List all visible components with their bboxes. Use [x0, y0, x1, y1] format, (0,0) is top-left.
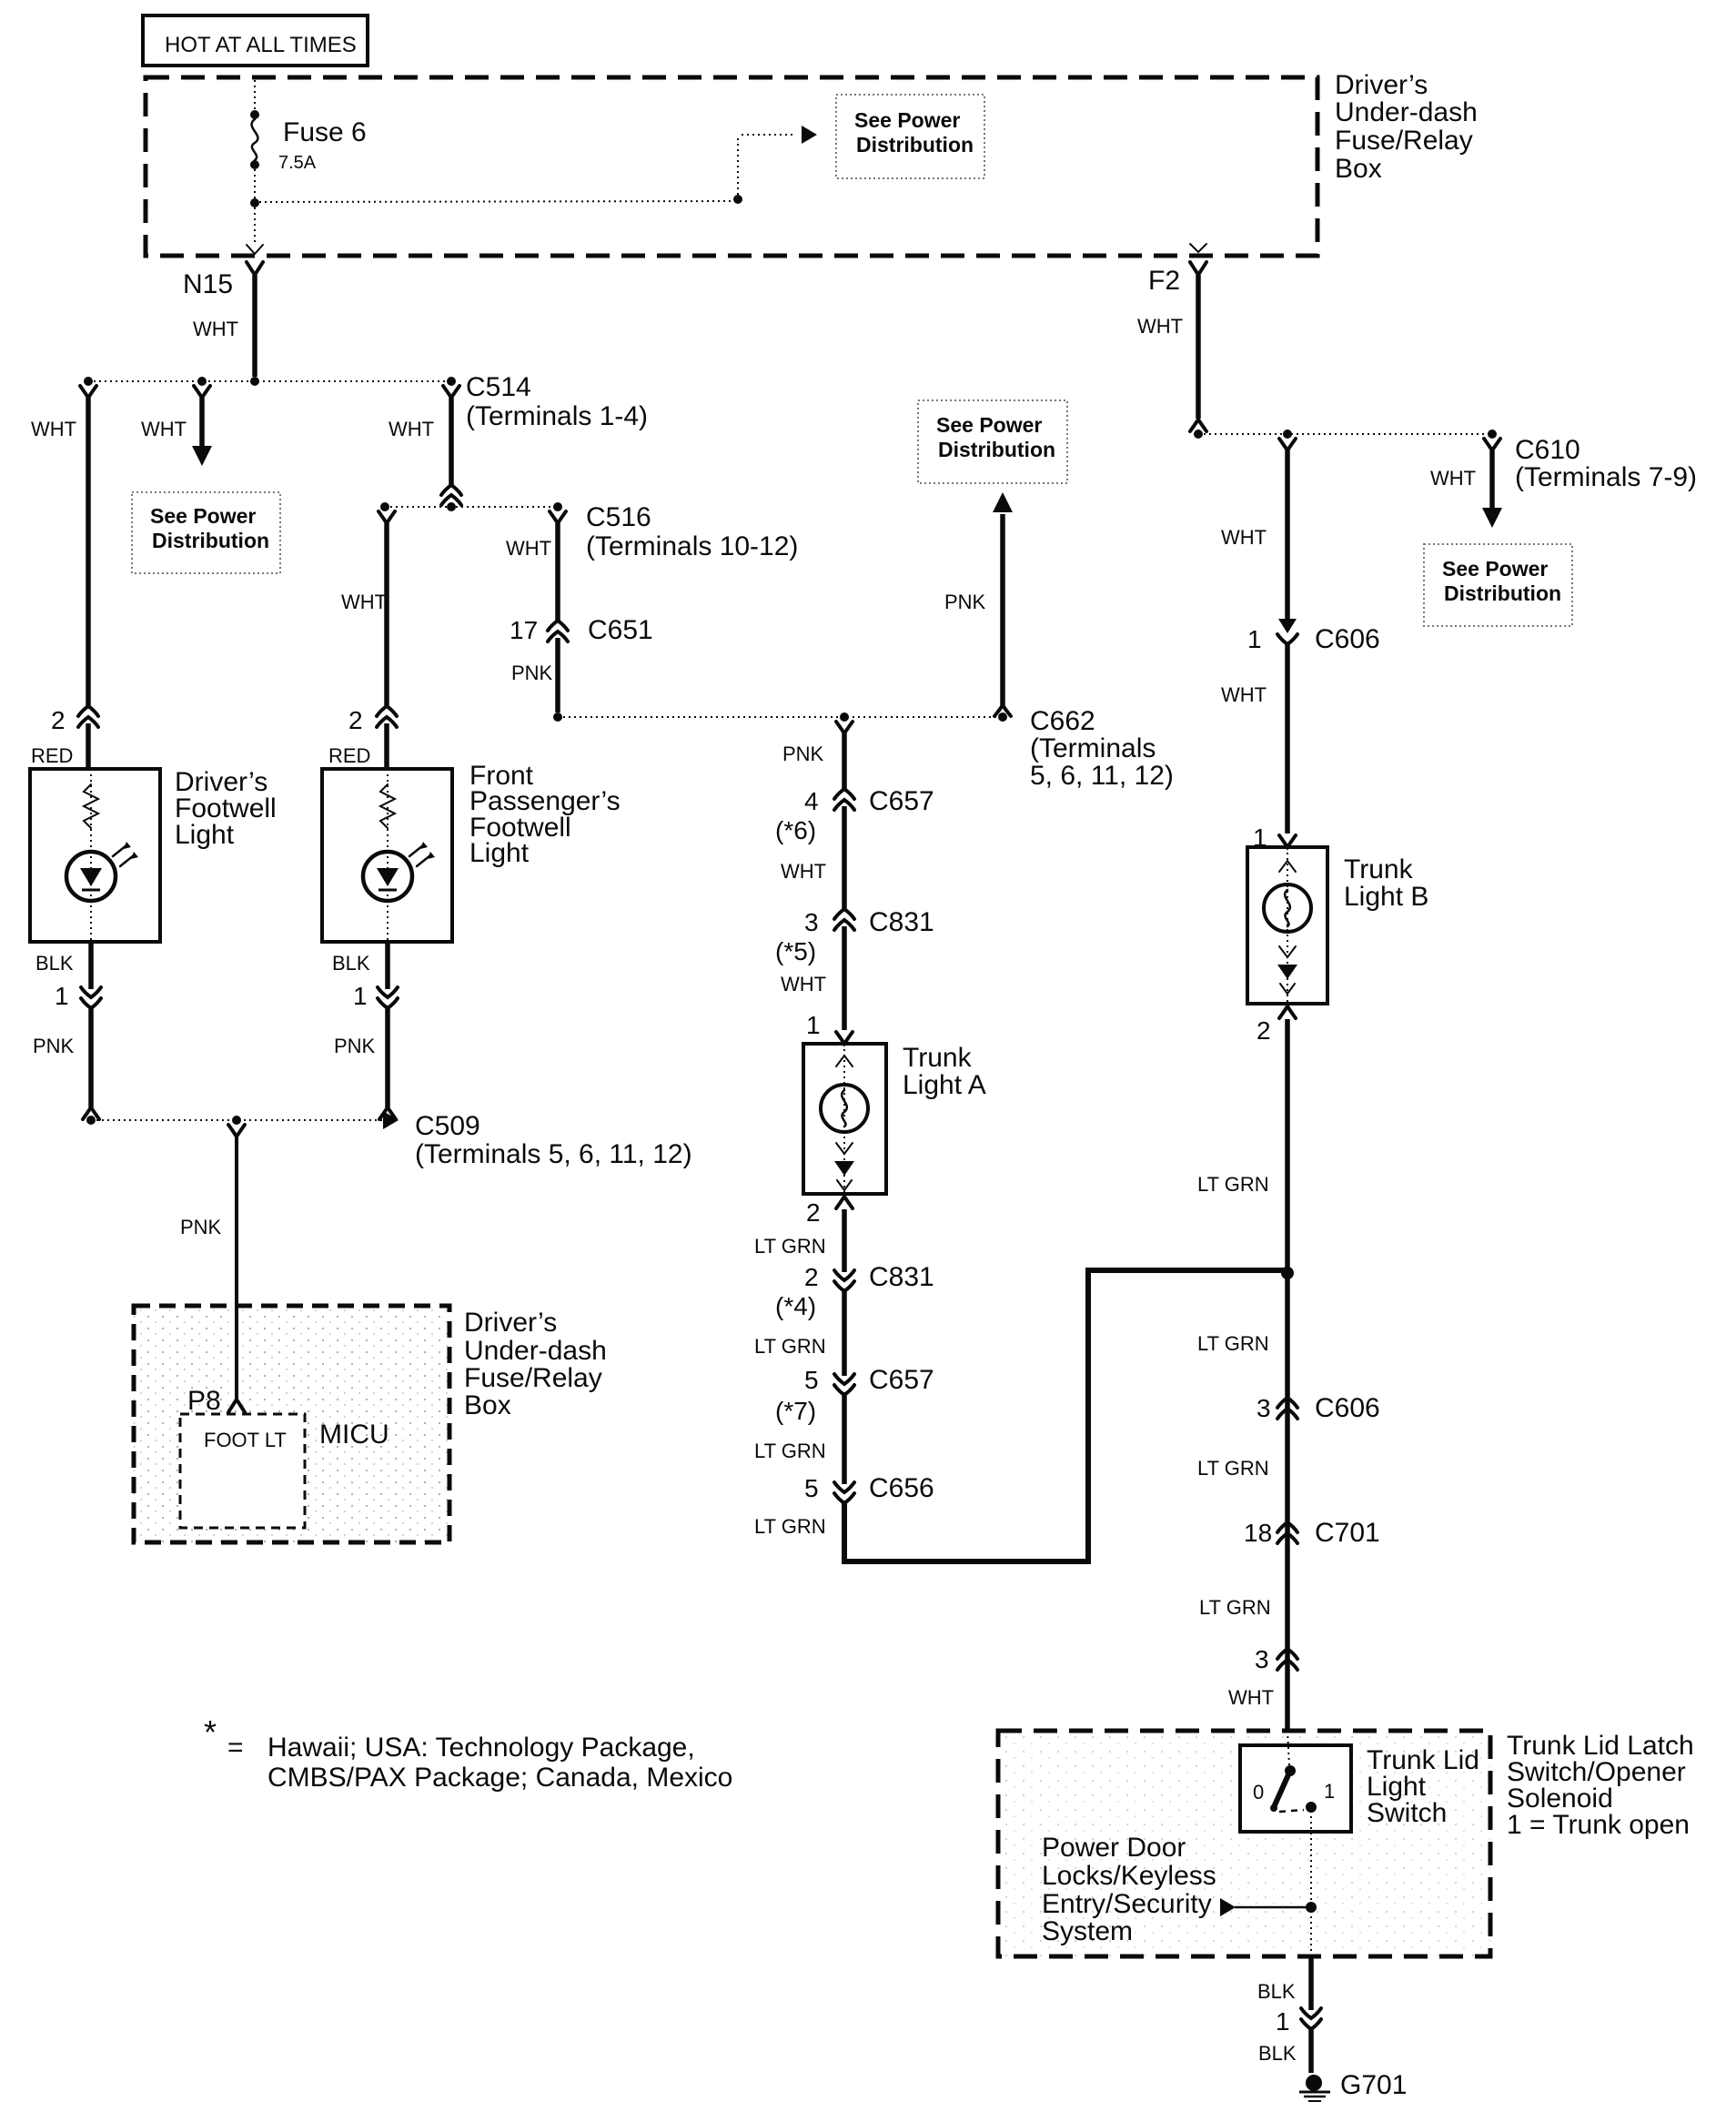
svg-text:C606: C606 [1315, 1393, 1380, 1423]
svg-text:1 = Trunk open: 1 = Trunk open [1507, 1810, 1690, 1840]
svg-text:LT GRN: LT GRN [1197, 1332, 1269, 1355]
svg-text:PNK: PNK [944, 591, 986, 613]
svg-text:C657: C657 [869, 1365, 934, 1395]
svg-text:BLK: BLK [1257, 1980, 1296, 2003]
svg-text:Distribution: Distribution [938, 438, 1055, 461]
svg-text:3: 3 [1257, 1394, 1271, 1422]
svg-text:1: 1 [353, 982, 368, 1010]
svg-text:Trunk: Trunk [903, 1043, 973, 1073]
svg-text:C831: C831 [869, 1262, 934, 1292]
svg-text:(Terminals 10-12): (Terminals 10-12) [586, 531, 798, 561]
svg-text:RED: RED [328, 744, 370, 767]
svg-text:PNK: PNK [180, 1216, 222, 1238]
svg-text:(Terminals 5, 6, 11, 12): (Terminals 5, 6, 11, 12) [415, 1139, 692, 1169]
svg-text:3: 3 [804, 908, 819, 936]
svg-text:2: 2 [1257, 1016, 1271, 1045]
svg-text:WHT: WHT [1430, 467, 1476, 490]
svg-text:(Terminals 7-9): (Terminals 7-9) [1515, 462, 1697, 492]
svg-text:WHT: WHT [1137, 315, 1183, 338]
svg-text:5, 6, 11, 12): 5, 6, 11, 12) [1030, 761, 1174, 791]
svg-text:C657: C657 [869, 786, 934, 816]
svg-text:Power Door: Power Door [1042, 1833, 1186, 1863]
svg-text:Under-dash: Under-dash [464, 1336, 607, 1366]
svg-text:3: 3 [1255, 1645, 1269, 1673]
svg-text:WHT: WHT [1221, 526, 1267, 549]
svg-text:2: 2 [804, 1263, 819, 1291]
svg-text:1: 1 [806, 1011, 821, 1039]
svg-text:Light A: Light A [903, 1070, 986, 1100]
svg-text:2: 2 [51, 706, 66, 734]
svg-text:Under-dash: Under-dash [1335, 97, 1478, 127]
svg-text:Box: Box [1335, 154, 1382, 184]
svg-text:18: 18 [1244, 1519, 1272, 1547]
svg-text:Fuse/Relay: Fuse/Relay [464, 1363, 602, 1393]
svg-text:C831: C831 [869, 907, 934, 937]
svg-text:See Power: See Power [936, 413, 1042, 437]
svg-text:WHT: WHT [1228, 1686, 1274, 1709]
svg-text:PNK: PNK [33, 1035, 75, 1057]
svg-text:PNK: PNK [511, 662, 553, 684]
svg-text:Light B: Light B [1344, 882, 1428, 912]
svg-text:=: = [227, 1733, 244, 1763]
svg-text:C662: C662 [1030, 706, 1095, 736]
svg-text:N15: N15 [183, 269, 233, 299]
svg-text:C606: C606 [1315, 624, 1380, 654]
svg-text:LT GRN: LT GRN [754, 1335, 826, 1358]
svg-text:Driver’s: Driver’s [1335, 70, 1428, 100]
svg-text:WHT: WHT [389, 418, 434, 440]
svg-text:WHT: WHT [781, 860, 826, 883]
svg-text:Hawaii; USA: Technology Packag: Hawaii; USA: Technology Package, [267, 1733, 695, 1763]
svg-text:MICU: MICU [319, 1420, 389, 1450]
svg-text:See Power: See Power [854, 108, 960, 132]
svg-text:Switch: Switch [1367, 1798, 1447, 1828]
svg-text:C610: C610 [1515, 435, 1580, 465]
svg-text:P8: P8 [187, 1386, 221, 1416]
svg-text:C514: C514 [466, 372, 531, 402]
svg-text:Light: Light [469, 838, 530, 868]
svg-text:LT GRN: LT GRN [1197, 1173, 1269, 1196]
svg-text:FOOT LT: FOOT LT [204, 1429, 287, 1451]
svg-text:LT GRN: LT GRN [754, 1235, 826, 1258]
svg-text:PNK: PNK [334, 1035, 376, 1057]
svg-text:(*5): (*5) [775, 937, 816, 965]
svg-text:(Terminals: (Terminals [1030, 733, 1156, 763]
svg-text:5: 5 [804, 1366, 819, 1394]
svg-text:WHT: WHT [506, 537, 551, 560]
svg-text:Box: Box [464, 1390, 511, 1420]
svg-text:7.5A: 7.5A [278, 153, 317, 173]
svg-text:(*4): (*4) [775, 1292, 816, 1320]
svg-text:LT GRN: LT GRN [1197, 1457, 1269, 1480]
svg-text:*: * [204, 1713, 217, 1751]
svg-text:2: 2 [348, 706, 363, 734]
svg-text:G701: G701 [1340, 2070, 1407, 2100]
svg-text:2: 2 [806, 1198, 821, 1227]
svg-text:C651: C651 [588, 615, 653, 645]
svg-text:4: 4 [804, 787, 819, 815]
svg-text:(*6): (*6) [775, 816, 816, 844]
svg-text:See Power: See Power [1442, 557, 1548, 581]
svg-text:BLK: BLK [35, 952, 74, 975]
svg-text:C516: C516 [586, 502, 651, 532]
svg-text:WHT: WHT [341, 591, 387, 613]
svg-text:(*7): (*7) [775, 1397, 816, 1425]
svg-text:C656: C656 [869, 1473, 934, 1503]
svg-text:LT GRN: LT GRN [754, 1515, 826, 1538]
svg-text:Distribution: Distribution [152, 529, 269, 552]
svg-text:1: 1 [1324, 1780, 1335, 1803]
svg-text:1: 1 [55, 982, 69, 1010]
svg-text:Entry/Security: Entry/Security [1042, 1889, 1212, 1919]
svg-text:17: 17 [510, 616, 538, 644]
svg-text:WHT: WHT [781, 973, 826, 995]
svg-text:See Power: See Power [150, 504, 256, 528]
svg-text:5: 5 [804, 1474, 819, 1502]
svg-text:PNK: PNK [782, 743, 824, 765]
svg-text:Locks/Keyless: Locks/Keyless [1042, 1861, 1216, 1891]
svg-text:Fuse 6: Fuse 6 [283, 117, 367, 147]
svg-text:System: System [1042, 1916, 1133, 1946]
svg-text:WHT: WHT [31, 418, 76, 440]
svg-text:WHT: WHT [193, 318, 238, 340]
svg-text:0: 0 [1253, 1781, 1264, 1804]
svg-text:Distribution: Distribution [856, 133, 974, 157]
svg-text:Trunk: Trunk [1344, 854, 1414, 884]
svg-text:Driver’s: Driver’s [464, 1308, 557, 1338]
svg-text:HOT AT ALL TIMES: HOT AT ALL TIMES [165, 33, 357, 57]
svg-text:(Terminals 1-4): (Terminals 1-4) [466, 401, 648, 431]
svg-text:LT GRN: LT GRN [754, 1440, 826, 1462]
svg-text:RED: RED [31, 744, 73, 767]
svg-text:Light: Light [175, 820, 235, 850]
svg-text:C509: C509 [415, 1111, 480, 1141]
svg-text:F2: F2 [1148, 266, 1180, 296]
svg-text:BLK: BLK [332, 952, 370, 975]
svg-text:LT GRN: LT GRN [1199, 1596, 1271, 1619]
svg-text:Fuse/Relay: Fuse/Relay [1335, 126, 1473, 156]
svg-text:WHT: WHT [1221, 683, 1267, 706]
svg-text:Distribution: Distribution [1444, 581, 1561, 605]
svg-text:WHT: WHT [141, 418, 187, 440]
svg-text:1: 1 [1276, 2007, 1290, 2036]
svg-text:1: 1 [1247, 625, 1262, 653]
svg-text:CMBS/PAX Package; Canada, Mexi: CMBS/PAX Package; Canada, Mexico [267, 1763, 732, 1793]
svg-text:BLK: BLK [1258, 2042, 1297, 2065]
svg-text:C701: C701 [1315, 1518, 1380, 1548]
